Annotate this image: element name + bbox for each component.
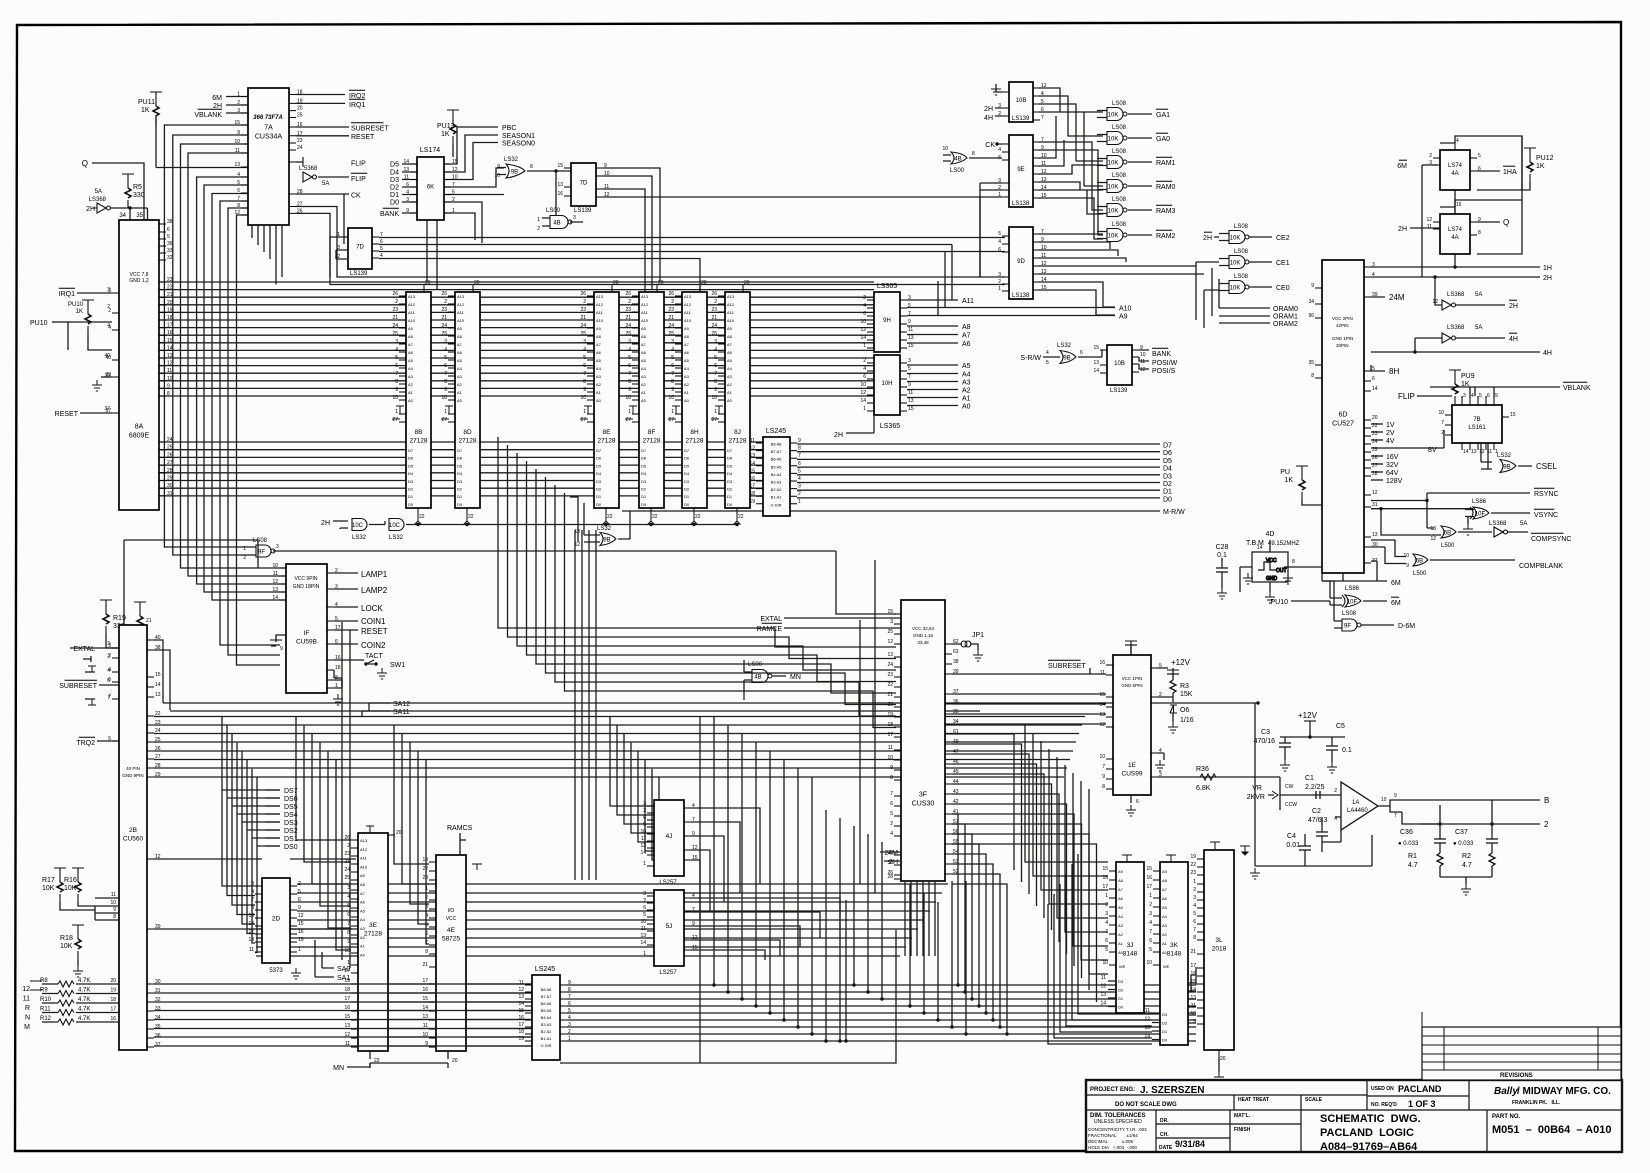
wire 64V [1371, 471, 1383, 473]
svg-text:RAMCS: RAMCS [447, 825, 473, 832]
svg-text:10: 10 [640, 919, 646, 925]
svg-text:14: 14 [155, 682, 161, 688]
svg-text:A4: A4 [684, 366, 690, 371]
svg-text:2H: 2H [86, 206, 95, 213]
svg-text:PACLAND LOGIC: PACLAND LOGIC [1320, 1127, 1414, 1139]
svg-text:D2: D2 [684, 487, 690, 492]
svg-text:10: 10 [860, 319, 866, 325]
pullup R19 330 [100, 600, 112, 634]
svg-text:A11: A11 [408, 310, 416, 315]
resistor R3 15K [1170, 680, 1176, 693]
svg-text:MAT'L.: MAT'L. [1234, 1113, 1251, 1119]
ground 3L [1214, 1072, 1224, 1083]
svg-text:1K: 1K [76, 309, 83, 315]
pullup PU10 1K [82, 300, 94, 334]
svg-text:GND 1PIN: GND 1PIN [1332, 336, 1353, 341]
svg-text:16: 16 [1102, 875, 1108, 881]
svg-text:WE: WE [1119, 964, 1126, 969]
svg-text:16: 16 [1190, 971, 1196, 977]
svg-text:7: 7 [1193, 927, 1196, 933]
svg-text:17: 17 [887, 732, 893, 738]
svg-text:R19: R19 [113, 615, 126, 622]
svg-text:21: 21 [711, 315, 717, 321]
svg-text:16: 16 [1456, 202, 1462, 208]
svg-text:4E: 4E [447, 927, 456, 934]
svg-text:4: 4 [714, 347, 717, 353]
svg-text:D2: D2 [1162, 1021, 1168, 1026]
svg-text:15: 15 [234, 120, 240, 126]
svg-text:9: 9 [798, 438, 801, 444]
svg-text:NO. REQ'D: NO. REQ'D [1371, 1102, 1397, 1108]
svg-text:10: 10 [1102, 960, 1108, 966]
svg-text:40 PIN: 40 PIN [126, 766, 140, 771]
svg-text:G DIR: G DIR [540, 1043, 551, 1048]
wire 32V [1371, 463, 1383, 465]
EPROM 8E 27128 [587, 285, 619, 515]
svg-text:5373: 5373 [269, 968, 283, 974]
svg-text:7: 7 [380, 232, 383, 238]
svg-text:8: 8 [1478, 230, 1481, 236]
wire 3F to 1E [952, 694, 1106, 724]
gate LS08 CE2 [1229, 231, 1249, 244]
svg-text:12: 12 [1041, 83, 1047, 89]
svg-text:FLIP: FLIP [351, 176, 366, 183]
svg-text:A6: A6 [1162, 896, 1168, 901]
wire 3F lower right staircase [952, 814, 1007, 1034]
svg-text:LS365: LS365 [877, 283, 897, 290]
svg-text:2: 2 [998, 279, 1001, 285]
svg-text:2: 2 [863, 295, 866, 301]
svg-text:6: 6 [1041, 107, 1044, 113]
ground JP1 [973, 650, 983, 661]
svg-text:2: 2 [1544, 820, 1549, 829]
svg-text:1A: 1A [1352, 800, 1359, 806]
svg-text:LS08: LS08 [1234, 224, 1249, 230]
wire 10B outs [1039, 88, 1103, 186]
wire 7A input staircase down to IF [164, 125, 280, 665]
capacitor C2 47/6.3 [1316, 826, 1328, 842]
svg-text:8: 8 [890, 775, 893, 781]
svg-text:C5: C5 [1336, 723, 1345, 730]
wire R18 dn [77, 959, 79, 966]
svg-text:4: 4 [1456, 138, 1459, 144]
wire 2B top pins [154, 640, 170, 710]
svg-text:21: 21 [441, 315, 447, 321]
svg-text:15K: 15K [1180, 691, 1193, 698]
svg-text:11: 11 [908, 390, 913, 396]
svg-text:11: 11 [249, 947, 254, 953]
svg-text:7A: 7A [264, 125, 273, 132]
svg-text:D4: D4 [1163, 466, 1172, 473]
wire 7A outputs [296, 95, 349, 245]
svg-text:8D: 8D [463, 429, 472, 436]
svg-text:4: 4 [1041, 91, 1044, 97]
svg-text:13: 13 [1471, 449, 1477, 455]
svg-text:D0: D0 [408, 502, 414, 507]
svg-text:D3: D3 [390, 177, 399, 184]
wire MN join [347, 1063, 448, 1067]
svg-text:27: 27 [297, 202, 303, 208]
svg-text:2H: 2H [834, 432, 843, 439]
ground C3 [1280, 760, 1290, 771]
svg-text:18: 18 [749, 491, 755, 497]
wire R3 [1158, 674, 1173, 702]
svg-text:D4: D4 [457, 471, 463, 476]
wire MN gate [744, 660, 786, 700]
svg-text:A6: A6 [360, 900, 366, 905]
svg-text:12: 12 [1099, 722, 1105, 728]
wire CE ins [1196, 237, 1219, 328]
svg-text:D1: D1 [408, 494, 414, 499]
svg-text:8: 8 [1102, 784, 1105, 790]
svg-text:A10: A10 [727, 318, 735, 323]
svg-text:25: 25 [625, 331, 631, 337]
svg-text:5: 5 [628, 355, 631, 361]
svg-text:D5: D5 [1163, 458, 1172, 465]
svg-text:D7: D7 [684, 448, 690, 453]
svg-text:14: 14 [1463, 449, 1469, 455]
svg-text:R10: R10 [40, 997, 52, 1003]
svg-text:8A: 8A [135, 424, 144, 431]
wire long rails [163, 703, 1258, 711]
svg-text:6: 6 [863, 311, 866, 317]
svg-text:11: 11 [1100, 670, 1105, 676]
wire 4Hbar out [1456, 337, 1505, 339]
svg-text:13: 13 [908, 335, 914, 341]
wire bus 3E/4E data [356, 984, 532, 1046]
svg-text:10K: 10K [1108, 185, 1119, 191]
svg-text:21: 21 [887, 692, 893, 698]
resistor R36 6.8K [1200, 774, 1216, 780]
svg-text:0.1: 0.1 [1217, 552, 1227, 559]
svg-text:19: 19 [110, 988, 116, 994]
label SUBRESET [351, 123, 389, 133]
svg-text:4: 4 [890, 831, 893, 837]
svg-text:A4: A4 [727, 366, 733, 371]
wire long verticals mid [860, 560, 875, 893]
wire 2H 365 [846, 415, 874, 433]
svg-text:LOCK: LOCK [361, 604, 383, 613]
svg-text:22: 22 [738, 514, 744, 520]
svg-text:D5: D5 [390, 162, 399, 169]
gate LS32 9B [506, 164, 525, 178]
svg-text:B2 A2: B2 A2 [771, 487, 782, 492]
svg-text:10: 10 [1381, 797, 1387, 803]
IC 9E LS138 [1002, 135, 1040, 207]
svg-text:A10: A10 [1119, 306, 1132, 313]
svg-text:9: 9 [671, 387, 674, 393]
wire IRQ2 in [97, 740, 119, 742]
svg-text:17: 17 [518, 1022, 524, 1028]
svg-text:6: 6 [1193, 919, 1196, 925]
svg-text:19: 19 [518, 1036, 524, 1042]
svg-text:A1: A1 [1118, 941, 1124, 946]
wire verticals into 3E/4E [296, 622, 429, 968]
wire 3E data pins [351, 984, 358, 1047]
svg-text:21: 21 [580, 315, 586, 321]
svg-text:1: 1 [863, 343, 866, 349]
ground IF [333, 694, 343, 705]
svg-text:8: 8 [714, 379, 717, 385]
svg-text:6: 6 [998, 247, 1001, 253]
svg-text:27: 27 [441, 417, 447, 423]
svg-text:D1: D1 [457, 494, 463, 499]
svg-text:26: 26 [580, 291, 586, 297]
svg-text:18: 18 [344, 987, 350, 993]
svg-text:CSEL: CSEL [1536, 462, 1557, 471]
svg-text:LS138: LS138 [1012, 293, 1030, 299]
svg-text:A7: A7 [457, 342, 463, 347]
svg-text:7: 7 [583, 371, 586, 377]
svg-text:22: 22 [607, 514, 613, 520]
svg-text:17: 17 [110, 1007, 116, 1013]
wire PU1 [1302, 500, 1322, 505]
svg-text:8B: 8B [415, 429, 423, 436]
svg-text:B1 A1: B1 A1 [541, 1036, 552, 1041]
label IRQ2 left [76, 737, 95, 747]
svg-text:CCW: CCW [1285, 802, 1297, 808]
svg-text:23: 23 [580, 307, 586, 313]
svg-text:B7 A7: B7 A7 [541, 994, 552, 999]
svg-text:14: 14 [1190, 987, 1196, 993]
svg-text:COMPSYNC: COMPSYNC [1531, 536, 1571, 543]
svg-text:A9: A9 [408, 326, 414, 331]
svg-text:A7: A7 [962, 333, 971, 340]
svg-text:3: 3 [890, 619, 893, 625]
pullup R16 10K [72, 868, 84, 902]
svg-text:4: 4 [395, 347, 398, 353]
svg-text:5: 5 [237, 180, 240, 186]
svg-text:L.5368: L.5368 [299, 166, 318, 172]
wire 4H lines [1371, 338, 1540, 352]
svg-text:WE: WE [1163, 964, 1170, 969]
svg-text:D3: D3 [1163, 473, 1172, 480]
ground 1E pin4 [1155, 760, 1165, 771]
svg-text:16: 16 [297, 122, 303, 128]
svg-text:49.152MHZ: 49.152MHZ [1268, 541, 1300, 547]
svg-text:7: 7 [1041, 115, 1044, 121]
svg-text:A2: A2 [641, 382, 647, 387]
EPROM 8D 27128 [448, 285, 480, 515]
wire 16V [1371, 455, 1383, 457]
svg-text:10K: 10K [1108, 137, 1119, 143]
svg-text:DECIMAL ±.005: DECIMAL ±.005 [1088, 1139, 1133, 1144]
svg-text:A8: A8 [684, 334, 690, 339]
wire JP1 [952, 644, 978, 650]
svg-text:A0: A0 [1162, 950, 1168, 955]
wire bus 2B pins 22-29 [154, 717, 1085, 778]
gate LS08 CE0 [1229, 281, 1249, 294]
svg-text:11: 11 [111, 892, 116, 898]
gate LS00 6B blank [1413, 554, 1428, 566]
svg-text:SEASON1: SEASON1 [502, 133, 535, 140]
svg-text:A3: A3 [596, 374, 602, 379]
svg-text:15: 15 [167, 338, 173, 344]
svg-text:C37: C37 [1455, 829, 1468, 836]
resistor R11 4.7K [58, 1010, 74, 1016]
svg-text:A3: A3 [1162, 923, 1168, 928]
svg-text:11: 11 [404, 175, 409, 181]
svg-text:A5: A5 [684, 358, 690, 363]
svg-text:USED ON: USED ON [1371, 1086, 1394, 1092]
svg-text:7: 7 [714, 371, 717, 377]
wire 4E data pins [429, 984, 436, 1047]
svg-text:21: 21 [167, 292, 173, 298]
svg-text:5: 5 [998, 231, 1001, 237]
label VBLANK [194, 109, 222, 119]
svg-text:SA12: SA12 [393, 701, 410, 708]
svg-text:Q: Q [1503, 218, 1509, 227]
svg-text:19: 19 [298, 937, 304, 943]
svg-text:A7: A7 [1162, 887, 1168, 892]
OE bubble 8B [415, 515, 421, 524]
svg-text:20: 20 [474, 280, 480, 286]
label BANK [380, 208, 399, 218]
svg-text:12: 12 [298, 913, 304, 919]
RAM 3J 8148 [1109, 862, 1144, 1013]
svg-text:EXTAL: EXTAL [760, 616, 782, 623]
wire bus below 3F [256, 884, 948, 956]
OE bubble 8H [691, 515, 697, 524]
wire R8 [42, 983, 119, 985]
svg-text:9F: 9F [258, 550, 265, 556]
svg-text:16: 16 [557, 191, 563, 197]
svg-text:11: 11 [1101, 975, 1106, 981]
svg-text:A4: A4 [360, 917, 366, 922]
svg-text:B8 A8: B8 A8 [541, 987, 552, 992]
wire CSEL [1481, 443, 1532, 469]
wire VR [1268, 777, 1335, 810]
svg-text:18: 18 [518, 1029, 524, 1035]
svg-text:20: 20 [744, 280, 750, 286]
svg-text:2: 2 [643, 808, 646, 814]
label BANK out [1152, 348, 1171, 358]
svg-text:5: 5 [452, 190, 455, 196]
wire 1E pin6 [1130, 795, 1132, 803]
svg-text:D1: D1 [641, 494, 647, 499]
wire 2Hbar out [1456, 304, 1505, 306]
svg-text:A0: A0 [684, 398, 690, 403]
svg-text:10: 10 [1041, 153, 1047, 159]
svg-text:D5: D5 [408, 463, 414, 468]
svg-text:16: 16 [344, 1005, 350, 1011]
svg-text:8H: 8H [1389, 367, 1399, 376]
wire R10 [42, 1002, 119, 1004]
svg-text:27: 27 [711, 417, 717, 423]
svg-text:A3: A3 [684, 374, 690, 379]
svg-text:5J: 5J [666, 923, 673, 930]
wire TSC [101, 376, 112, 378]
wire IF pin feeds [279, 568, 286, 600]
svg-text:+12V: +12V [1298, 711, 1318, 720]
svg-text:B7 A7: B7 A7 [771, 449, 782, 454]
svg-text:2D: 2D [272, 916, 281, 923]
svg-text:10: 10 [452, 175, 458, 181]
svg-text:10F: 10F [1347, 600, 1358, 606]
svg-text:2: 2 [1105, 902, 1108, 908]
svg-text:9: 9 [908, 382, 911, 388]
wire 10C out OE rail [406, 523, 737, 526]
svg-text:A1: A1 [360, 944, 366, 949]
svg-text:LS139: LS139 [350, 271, 368, 277]
wire RAM1 out [1128, 161, 1152, 163]
svg-text:A12: A12 [408, 302, 416, 307]
svg-text:3: 3 [908, 358, 911, 364]
capacitor C5 0.1 [1326, 740, 1338, 756]
svg-text:58725: 58725 [442, 935, 460, 942]
svg-text:8: 8 [167, 391, 170, 397]
svg-text:14: 14 [1099, 702, 1105, 708]
wire A5-A0 [907, 365, 958, 406]
IC LS245 7C [756, 437, 797, 516]
svg-text:D3: D3 [1118, 979, 1124, 984]
svg-text:A0: A0 [360, 952, 366, 957]
svg-text:ORAM0: ORAM0 [1273, 306, 1298, 313]
wire CE0 [1219, 284, 1272, 291]
svg-text:SCHEMATIC DWG.: SCHEMATIC DWG. [1320, 1113, 1421, 1125]
svg-text:A9: A9 [684, 326, 690, 331]
svg-text:FLIP: FLIP [351, 161, 366, 168]
svg-text:15: 15 [887, 609, 893, 615]
svg-text:LS245: LS245 [535, 966, 555, 973]
svg-text:12: 12 [1144, 1017, 1150, 1023]
svg-text:15: 15 [1102, 866, 1108, 872]
svg-text:16: 16 [167, 330, 173, 336]
svg-text:17: 17 [422, 978, 428, 984]
svg-text:A10: A10 [641, 318, 649, 323]
label 2Hbar [1509, 300, 1518, 310]
wire 4E pin20 [447, 1051, 449, 1068]
svg-text:A12: A12 [727, 302, 735, 307]
svg-text:4: 4 [108, 667, 111, 673]
inverter LS368 FLIP [296, 157, 317, 182]
svg-text:SCALE: SCALE [1305, 1097, 1323, 1103]
svg-text:D7: D7 [596, 448, 602, 453]
svg-text:GND 6PIN: GND 6PIN [1121, 683, 1142, 688]
svg-text:D1: D1 [596, 494, 602, 499]
svg-text:3: 3 [108, 288, 111, 294]
svg-text:5: 5 [583, 355, 586, 361]
wire PU10 wires [68, 322, 112, 350]
svg-text:9F: 9F [1344, 624, 1351, 630]
svg-text:10: 10 [580, 395, 586, 401]
capacitor C4 0.01 [1299, 840, 1311, 856]
svg-text:7: 7 [452, 182, 455, 188]
IC 10B LS139 top [1002, 82, 1040, 122]
svg-text:1: 1 [998, 286, 1001, 292]
svg-text:23: 23 [167, 277, 173, 283]
svg-text:7: 7 [671, 371, 674, 377]
svg-text:A1: A1 [727, 390, 733, 395]
svg-text:1HA: 1HA [1503, 169, 1517, 176]
svg-text:LS368: LS368 [1447, 292, 1465, 298]
svg-text:D3: D3 [596, 479, 602, 484]
IC 6D CU527 [1315, 260, 1371, 573]
svg-text:A13: A13 [360, 838, 368, 843]
svg-text:1: 1 [798, 499, 801, 505]
svg-text:9: 9 [1394, 793, 1397, 799]
svg-text:1: 1 [1193, 879, 1196, 885]
svg-text:B2 A2: B2 A2 [541, 1029, 552, 1034]
svg-text:DATE: DATE [1159, 1145, 1173, 1151]
svg-text:6B: 6B [1444, 531, 1451, 537]
svg-text:34: 34 [119, 213, 126, 219]
label IRQ2 [349, 90, 365, 100]
svg-text:13: 13 [272, 587, 278, 593]
svg-text:14: 14 [1257, 545, 1263, 551]
wire 3E pin22 [369, 1051, 371, 1068]
svg-text:5: 5 [1479, 393, 1482, 399]
